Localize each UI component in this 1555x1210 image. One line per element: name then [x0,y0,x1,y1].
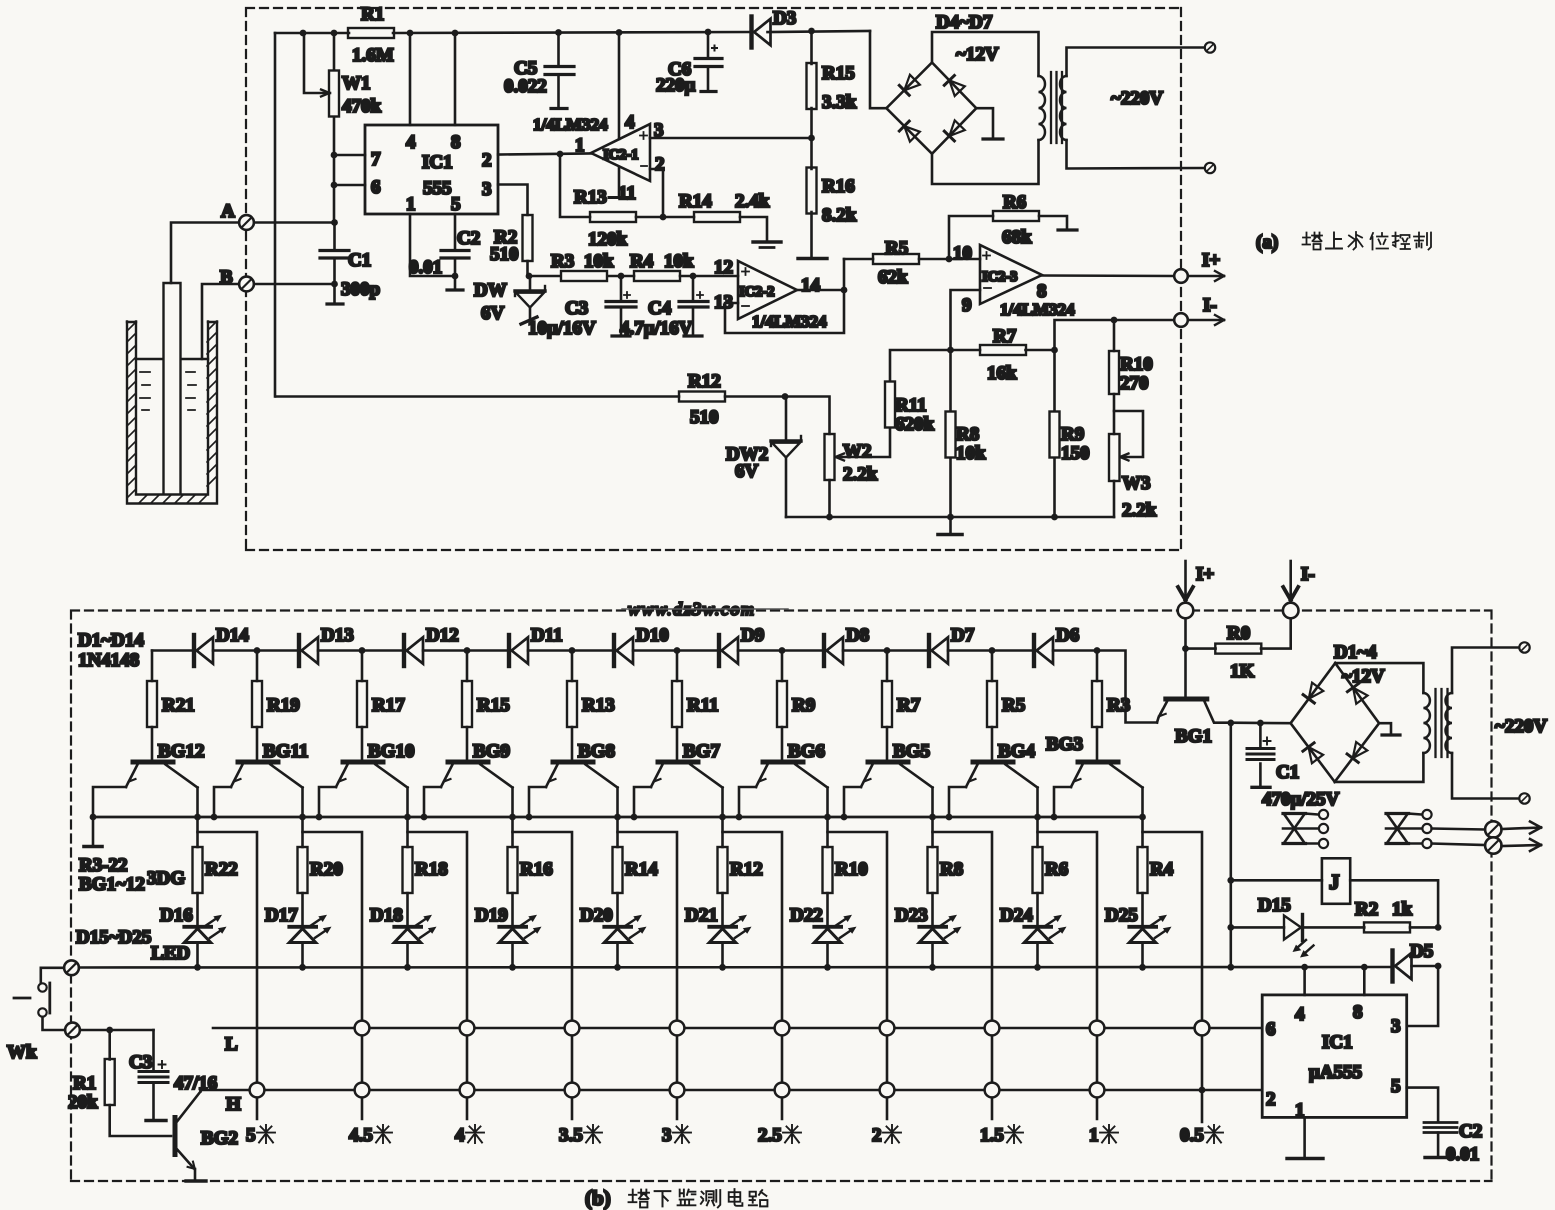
op-amp IC2-2 [714,257,827,331]
svg-text:C1: C1 [348,250,371,271]
resistor R0 [1182,619,1291,698]
wire: IC2-1 pin2 to R13 R14 node [650,169,663,217]
svg-text:14: 14 [801,275,821,296]
wire: top supply rail [275,31,870,33]
resistor R12 [718,847,763,893]
capacitor C4 (a) [620,273,708,339]
potentiometer W1 [304,33,382,222]
node: H line to pin2 junction [1199,1087,1206,1094]
svg-text:BG3: BG3 [1046,734,1083,755]
terminal crossed pair [1485,821,1541,853]
svg-text:D3: D3 [773,8,796,29]
node H probe 3米 [670,1083,685,1098]
svg-text:D15: D15 [1258,895,1291,916]
wire: BG7 collector down [719,788,726,848]
svg-text:IC2-3: IC2-3 [982,269,1017,285]
wire: probe branch column 2.5米 [723,832,783,1119]
svg-text:D13: D13 [321,625,354,646]
svg-text:R19: R19 [267,695,300,716]
node L probe 2米 [880,1021,895,1036]
svg-text:2.5: 2.5 [758,1125,782,1146]
wire: probe branch column 4.5米 [303,832,363,1119]
svg-text:D22: D22 [790,905,823,926]
svg-text:1.6M: 1.6M [352,45,394,66]
svg-text:270: 270 [1120,373,1149,394]
svg-text:4: 4 [625,112,635,133]
svg-text:R21: R21 [162,695,195,716]
svg-text:0.01: 0.01 [1446,1144,1479,1165]
wire: B line [254,281,338,288]
resistor R6 [949,192,1077,259]
resistor R21 [147,651,195,760]
wire: BG8 collector down [614,788,621,848]
svg-text:3.3k: 3.3k [822,92,857,113]
svg-text:R6: R6 [1045,859,1068,880]
resistor R4 (a) [621,251,738,281]
terminal 220V top (b) [1519,642,1529,652]
wire: IC1b pin4 pin8 to bus [1301,964,1368,995]
svg-text:1.5: 1.5 [980,1125,1004,1146]
svg-text:DW: DW [474,280,507,301]
op-amp IC1 555 [365,125,498,215]
svg-text:R9: R9 [792,695,815,716]
LED D21 [685,893,752,971]
svg-text:W2: W2 [843,441,872,462]
svg-text:R12: R12 [688,371,721,392]
svg-text:D21: D21 [685,905,718,926]
node H probe 1.5米 [985,1083,1000,1098]
svg-text:2.2k: 2.2k [1122,500,1157,521]
terminal I- entry (b) [1283,561,1315,618]
svg-text:1: 1 [1295,1100,1305,1121]
diode D5 [1393,941,1442,1026]
diode D12 [404,625,459,666]
svg-text:D23: D23 [895,905,928,926]
wire: BG9 emitter to bus [421,787,441,820]
wire: BG4 collector down [1034,788,1041,848]
svg-text:R5: R5 [1002,695,1025,716]
transistor BG12 [126,741,204,788]
svg-text:8: 8 [1037,281,1047,302]
resistor R6 [1033,847,1069,893]
wire: bottom rail (a) [786,514,1114,521]
bridge rectifier D1~4 [1291,642,1424,782]
zener DW [474,273,545,324]
svg-text:1k: 1k [1392,899,1413,920]
node L probe 4.5米 [355,1021,370,1036]
svg-text:9: 9 [962,295,972,316]
label 3.5米 depth [559,1125,602,1146]
wire: BG6 emitter to bus [736,787,756,820]
svg-text:J: J [1329,870,1340,894]
diode D10 [614,625,669,666]
node L probe 2.5米 [775,1021,790,1036]
svg-text:R7: R7 [993,326,1017,347]
svg-text:R14: R14 [679,191,712,212]
ground at bottom rail (a) [938,517,962,535]
svg-text:510: 510 [490,244,519,265]
svg-text:BG6: BG6 [788,741,825,762]
diode D7 [929,625,975,666]
resistor R20 [298,847,343,893]
resistor R11 [672,651,719,760]
resistor R8 [928,847,964,893]
node: rail junctions [300,29,712,37]
LED D15 [1231,895,1314,958]
LED D19 [475,893,542,971]
resistor R12 [275,33,785,428]
capacitor C3 (a) [528,273,636,339]
resistor R15 [807,28,857,169]
svg-text:R0: R0 [1227,623,1250,644]
wire: diode chain top (b) [152,651,1157,723]
svg-text:W3: W3 [1122,473,1151,494]
svg-text:620k: 620k [895,414,935,435]
transformer (b) [1423,648,1519,799]
svg-text:D17: D17 [265,905,298,926]
op-amp IC2-1 [575,112,665,204]
label 2.5米 depth [758,1125,801,1146]
svg-text:R17: R17 [372,695,405,716]
resistor R15 [462,651,510,760]
svg-text:H: H [226,1094,241,1115]
node L probe 1.5米 [985,1021,1000,1036]
svg-text:D24: D24 [1000,905,1033,926]
LED D20 [580,893,647,971]
wire: rail to bridge [870,31,886,108]
resistor R16 [508,847,553,893]
wire: BG3 collector down [1139,788,1146,848]
svg-text:1/4LM324: 1/4LM324 [533,115,608,134]
label 1米 depth [1089,1125,1118,1146]
svg-text:6V: 6V [481,303,505,324]
label 0.5米 depth [1180,1125,1223,1146]
bridge rectifier D4~D7 [886,12,1038,184]
svg-text:C1: C1 [1276,762,1299,783]
label 3米 depth [662,1125,691,1146]
svg-text:10k: 10k [956,443,986,464]
wire: IC1 pin4 pin8 to rail [410,33,455,125]
connector plug left [1283,810,1328,848]
svg-text:~12V: ~12V [956,44,999,65]
svg-text:20k: 20k [68,1092,98,1113]
wire: IC1b pin6 to L [1195,1021,1263,1036]
svg-text:300p: 300p [341,279,380,300]
terminal 220V top (a) [1205,42,1215,52]
resistor R9 [1050,350,1090,517]
svg-text:3: 3 [662,1125,672,1146]
wire: BG8 emitter to bus [526,787,546,820]
label ~220V (b) [1495,716,1547,737]
svg-text:BG1~12: BG1~12 [79,874,145,895]
node: chain junction D7 [884,647,891,654]
node: chain junction D6 [989,647,996,654]
terminal Wk line [43,1017,154,1037]
node L probe 0.5米 [1195,1021,1210,1036]
svg-text:D10: D10 [636,625,669,646]
capacitor C1 (a) [320,223,380,305]
ground at bridge right [976,108,1003,139]
svg-text:LED: LED [151,943,190,964]
svg-text:(a): (a) [1256,232,1278,253]
node: chain junction D10 [569,647,576,654]
svg-text:(b): (b) [585,1186,611,1210]
capacitor C6 [656,32,722,96]
node H probe 5米 [250,1083,265,1098]
svg-text:4: 4 [455,1125,465,1146]
wire: probe branch column 3.5米 [513,832,573,1119]
svg-text:8: 8 [451,132,461,153]
node H probe 2.5米 [775,1083,790,1098]
svg-text:D15~D25: D15~D25 [76,927,151,948]
label 2米 depth [872,1125,901,1146]
node: chain junction D6 right [1094,647,1101,654]
svg-text:C3: C3 [129,1052,152,1073]
svg-text:5: 5 [1391,1076,1401,1097]
svg-text:μA555: μA555 [1309,1062,1362,1083]
svg-text:7: 7 [371,149,381,170]
LED D24 [1000,893,1067,971]
node H probe 2米 [880,1083,895,1098]
resistor R10 [1109,320,1153,434]
resistor R14 [663,191,770,241]
svg-text:120k: 120k [588,229,628,250]
svg-text:IC2-1: IC2-1 [603,147,638,163]
wire: B to tank probe [202,284,239,359]
terminal B [220,267,254,291]
wire: probe branch column 2米 [828,832,888,1119]
label R3-22 BG1~12 3DG [79,855,185,895]
resistor R7 [882,651,921,760]
svg-text:BG1: BG1 [1175,726,1212,747]
wire: BG1 collector node [1227,720,1290,727]
terminal I- (a) [1174,295,1224,327]
transistor BG1 [1157,699,1231,747]
svg-text:D8: D8 [846,625,869,646]
svg-text:4.7μ/16V: 4.7μ/16V [620,318,693,339]
transistor BG5 [861,741,933,788]
svg-text:IC1: IC1 [1322,1032,1353,1053]
resistor R17 [357,651,405,760]
transistor BG3 [1046,734,1143,788]
resistor R10 [823,847,868,893]
svg-text:R13: R13 [574,187,607,208]
node: chain junction D11 [464,647,471,654]
wire: BG12 emitter to bus [90,787,126,820]
wire: probe branch column 5米 [198,832,258,1119]
wire: BG9 collector down [509,788,516,848]
svg-text:BG8: BG8 [578,741,615,762]
transistor BG8 [546,741,618,788]
wire: BG7 emitter to bus [631,787,651,820]
svg-text:R7: R7 [897,695,921,716]
diode D6 [1034,625,1079,666]
capacitor C1 (b) [1247,723,1340,810]
svg-text:D12: D12 [426,625,459,646]
svg-text:2: 2 [872,1125,882,1146]
wire: IC1 pin3 to R2 [498,185,528,216]
svg-text:8: 8 [1353,1002,1363,1023]
svg-text:I-: I- [1203,295,1217,316]
wire: probe branch column 1米 [1038,832,1098,1119]
svg-text:L: L [225,1034,238,1055]
LED D23 [895,893,962,971]
transformer (a) [1039,48,1206,169]
svg-text:8.2k: 8.2k [822,205,857,226]
svg-text:3: 3 [482,179,492,200]
svg-text:D5: D5 [1410,941,1433,962]
svg-text:4: 4 [1295,1004,1305,1025]
svg-text:D9: D9 [741,625,764,646]
svg-text:5: 5 [451,194,461,215]
svg-text:~220V: ~220V [1111,88,1163,109]
label 4米 depth [455,1125,484,1146]
svg-text:62k: 62k [878,267,908,288]
wire: I- line [1055,317,1175,350]
svg-text:D1~4: D1~4 [1334,642,1377,663]
svg-text:D7: D7 [951,625,975,646]
svg-text:R1: R1 [73,1073,96,1094]
svg-text:R3: R3 [1107,695,1130,716]
svg-text:BG12: BG12 [158,741,204,762]
svg-text:5: 5 [246,1125,256,1146]
svg-text:R15: R15 [822,63,855,84]
svg-text:R8: R8 [940,859,963,880]
svg-text:D1~D14: D1~D14 [78,630,144,651]
svg-text:220μ: 220μ [656,75,696,96]
svg-text:150: 150 [1061,443,1090,464]
svg-text:~12V: ~12V [1342,666,1385,687]
op-amp IC2-3 [953,243,1075,319]
label 1/4LM324 [533,115,608,134]
wire: IC1 pin7 pin6 [331,152,365,189]
svg-text:BG11: BG11 [263,741,308,762]
wire: BG3 emitter to bus [1051,787,1071,820]
resistor R11 [836,350,951,461]
svg-text:3.5: 3.5 [559,1125,583,1146]
svg-text:IC1: IC1 [422,152,453,173]
ground below R14 [753,242,781,248]
resistor R9 [777,651,815,760]
section (a) dashed border [246,8,1181,550]
LED D18 [370,893,437,971]
svg-text:3DG: 3DG [147,868,185,889]
ground at bridge right (b) [1379,723,1400,735]
relay J [1231,858,1438,927]
svg-text:Wk: Wk [7,1042,37,1063]
transistor BG11 [231,741,308,788]
svg-text:BG4: BG4 [998,741,1035,762]
resistor R16 [798,168,857,259]
IC1 uA555 (b) [1262,995,1407,1121]
wire: IC2-3 output to I+ [1042,274,1174,277]
transistor BG9 [441,741,513,788]
resistor R1 (b) [68,1027,171,1136]
svg-text:16k: 16k [987,363,1017,384]
svg-text:1N4148: 1N4148 [78,650,139,671]
svg-text:R4: R4 [630,251,654,272]
svg-text:1: 1 [1089,1125,1099,1146]
resistor R4 [1138,847,1174,893]
svg-text:470μ/25V: 470μ/25V [1262,789,1340,810]
node L probe 4米 [460,1021,475,1036]
node: R5 right junction [946,256,953,263]
LED D16 [160,893,227,971]
electrode tube [164,283,181,494]
svg-text:10μ/16V: 10μ/16V [528,318,596,339]
svg-text:D14: D14 [216,625,249,646]
resistor R2 (a) [490,215,533,276]
svg-text:BG2: BG2 [201,1128,238,1149]
wire: probe branch column 4米 [408,832,468,1119]
transistor BG7 [651,741,723,788]
svg-text:2.4k: 2.4k [735,191,770,212]
svg-text:D20: D20 [580,905,613,926]
resistor R18 [403,847,448,893]
wire: BG10 collector down [404,788,411,848]
resistor R3 (a) [530,251,621,281]
wire: A line [254,219,338,226]
zener DW2 [726,393,801,517]
LED D17 [265,893,332,971]
svg-text:10k: 10k [664,251,694,272]
svg-text:10: 10 [953,243,972,264]
diode D9 [719,625,764,666]
wire: LED cathode bus (b) [79,966,1393,969]
wire: IC2-2 feedback loop [725,259,847,333]
svg-text:4: 4 [406,132,416,153]
svg-text:~220V: ~220V [1495,716,1547,737]
svg-text:R2: R2 [1355,899,1378,920]
resistor R13 [560,155,663,251]
node L probe 3.5米 [565,1021,580,1036]
connector plug right [1386,810,1485,848]
terminal 220V bottom (a) [1205,163,1215,173]
label 4.5米 depth [349,1125,392,1146]
svg-text:R4: R4 [1150,859,1174,880]
svg-text:11: 11 [618,183,636,204]
node: chain junction D8 [779,647,786,654]
diode D14 [194,625,249,666]
svg-text:0.022: 0.022 [504,76,547,97]
svg-text:C2: C2 [457,228,480,249]
wire: IC1 pin1 [410,214,454,276]
terminal 220V bottom (b) [1519,793,1529,803]
svg-text:3: 3 [1391,1016,1401,1037]
wire: IC2-1 pin3 to R15 R16 node [650,137,812,140]
resistor R13 [567,651,615,760]
node H probe 3.5米 [565,1083,580,1098]
svg-text:R6: R6 [1003,192,1026,213]
node L probe 3米 [670,1021,685,1036]
potentiometer W3 [1109,411,1157,521]
diode D11 [509,625,563,666]
svg-text:R14: R14 [625,859,658,880]
svg-text:IC2-2: IC2-2 [739,284,774,300]
svg-text:0.01: 0.01 [409,257,442,278]
svg-text:R16: R16 [520,859,553,880]
node H probe 4米 [460,1083,475,1098]
potentiometer W2 [785,397,878,518]
diode D3 [752,8,797,48]
label D1~D14 1N4148 [78,630,144,671]
svg-text:R22: R22 [205,859,238,880]
wire: IC2-2 output [797,289,844,292]
water tank [127,322,217,504]
svg-text:R18: R18 [415,859,448,880]
svg-text:D18: D18 [370,905,403,926]
svg-text:4.5: 4.5 [349,1125,373,1146]
